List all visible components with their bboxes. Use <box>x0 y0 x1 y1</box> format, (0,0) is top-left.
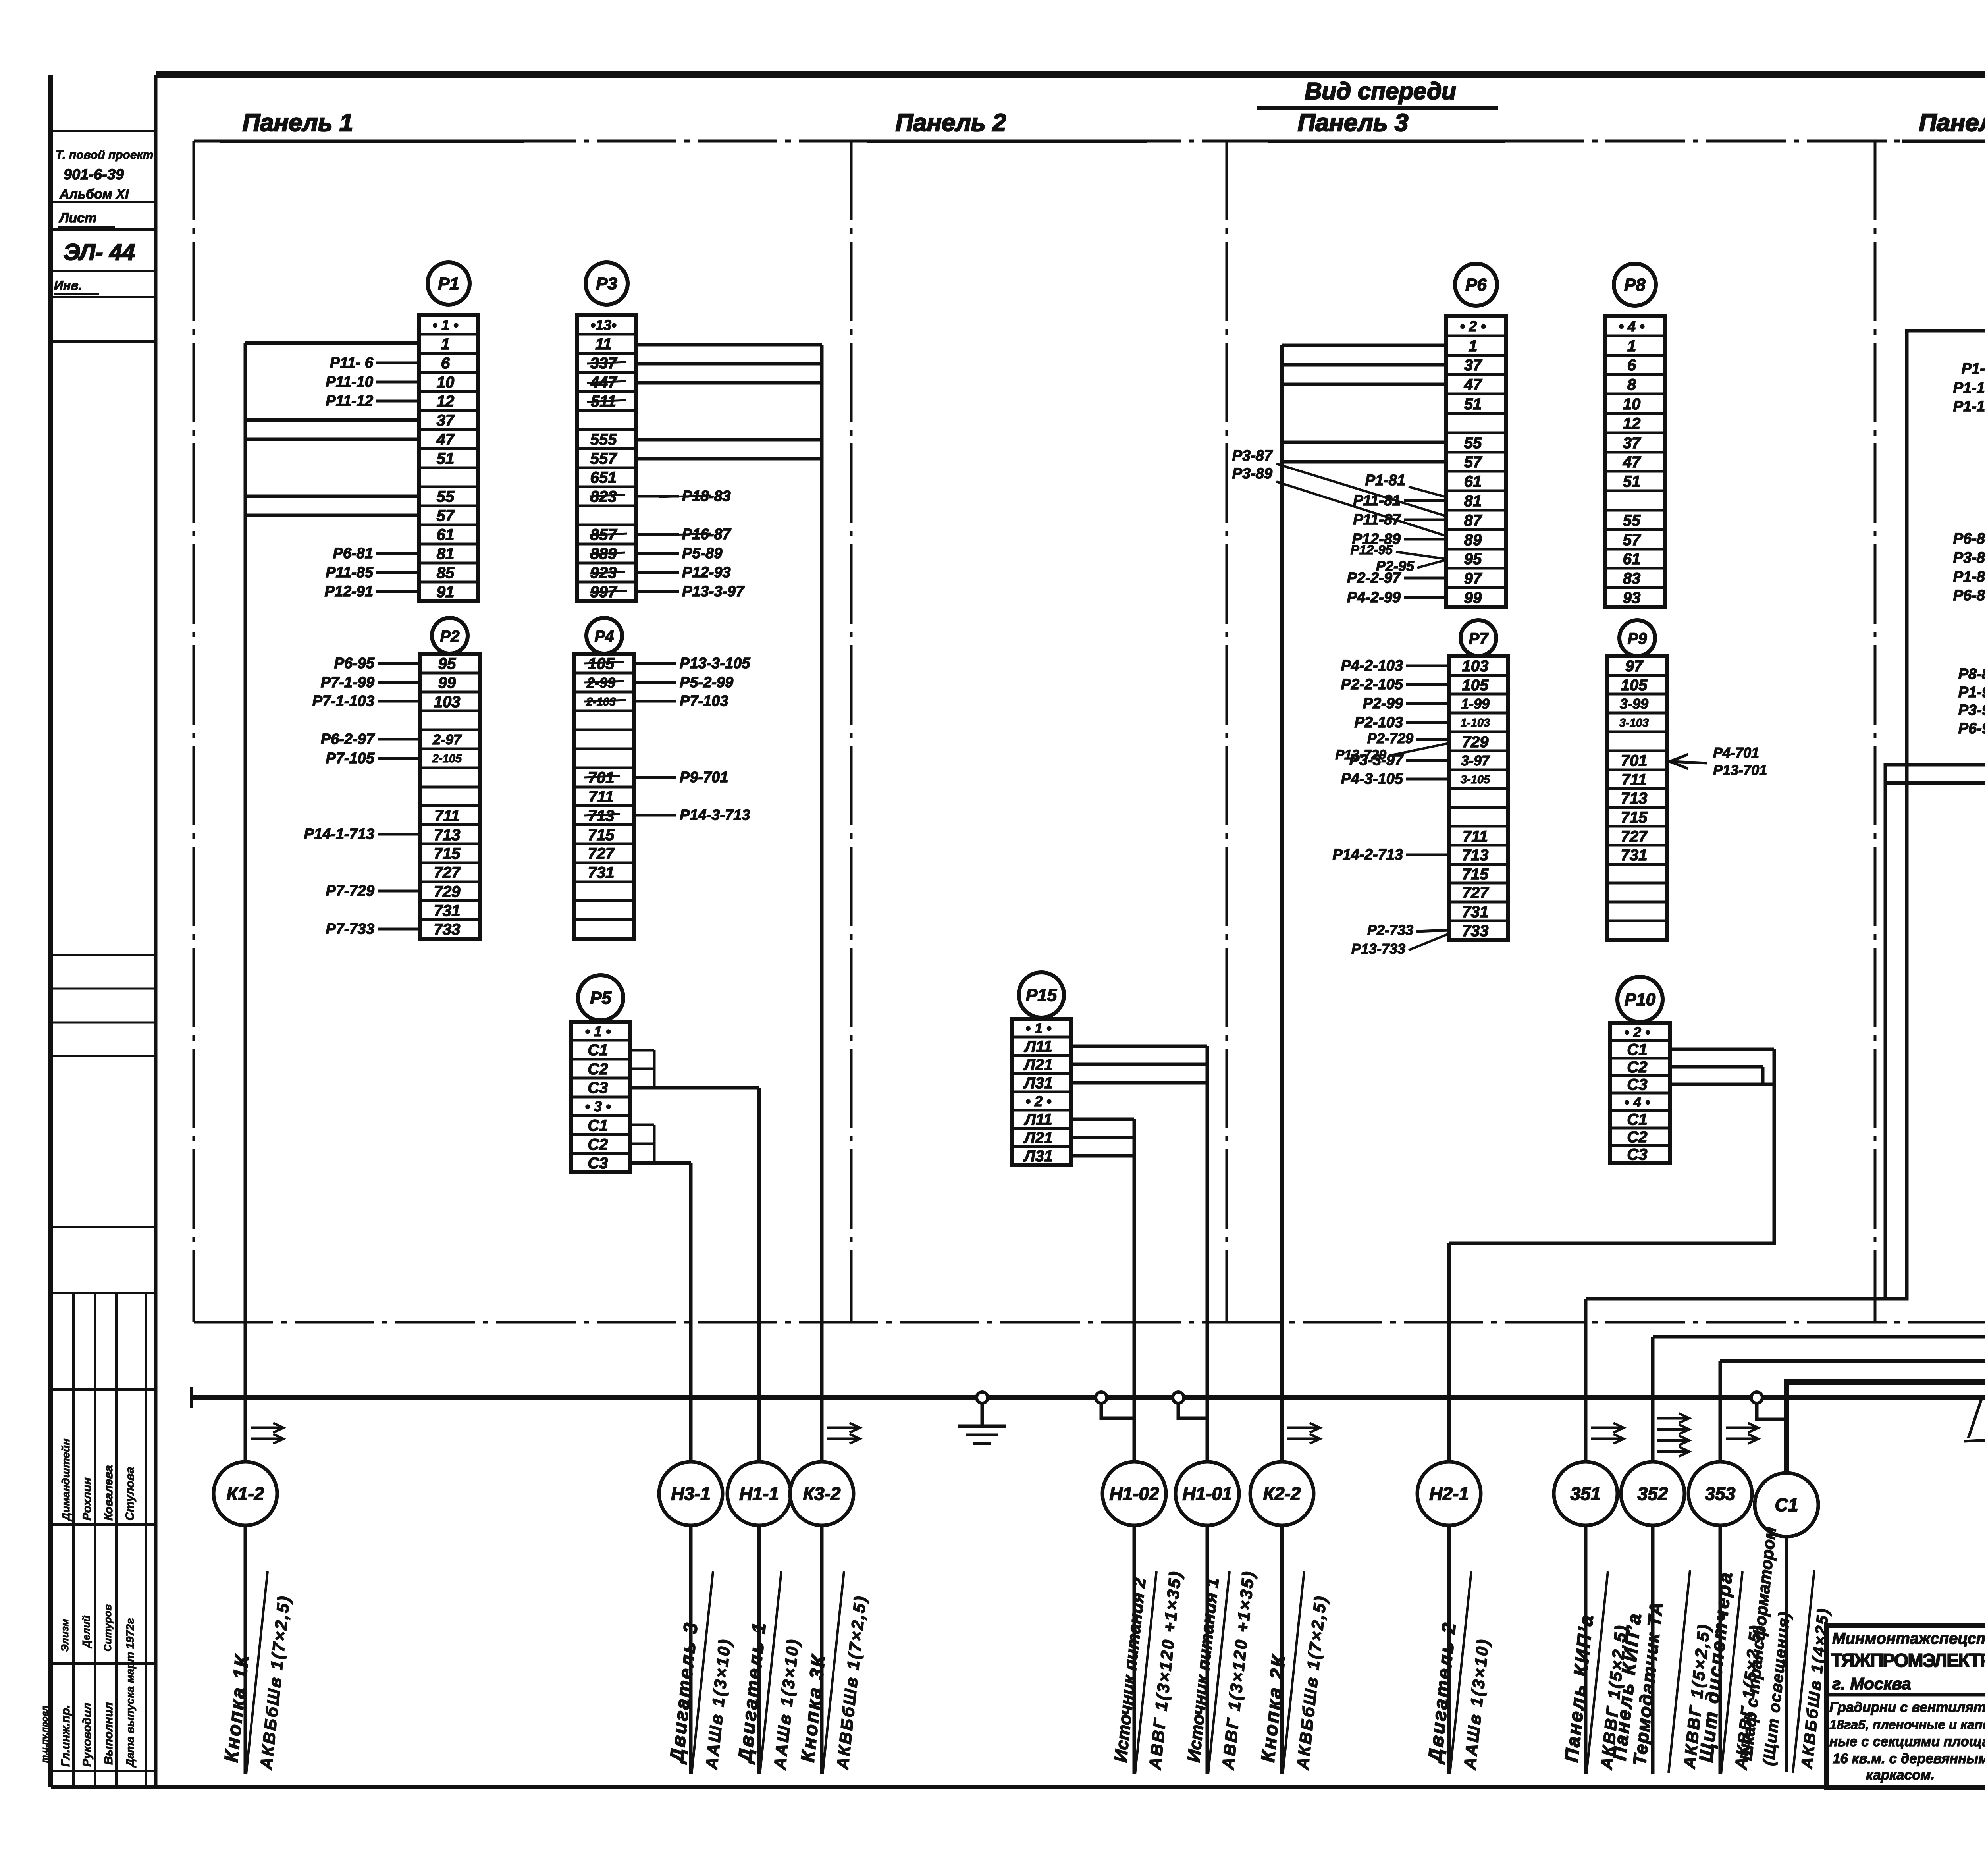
svg-text:353: 353 <box>1705 1483 1736 1504</box>
svg-text:Ковалева: Ковалева <box>102 1465 115 1521</box>
svg-text:16 кв.м. с деревянным: 16 кв.м. с деревянным <box>1833 1751 1985 1766</box>
svg-text:Панель 2: Панель 2 <box>896 109 1006 137</box>
svg-text:61: 61 <box>1464 473 1482 490</box>
svg-text:10: 10 <box>437 374 455 391</box>
svg-text:1-103: 1-103 <box>1461 717 1490 729</box>
svg-text:С2: С2 <box>1627 1059 1647 1076</box>
svg-text:С1: С1 <box>1627 1041 1647 1059</box>
svg-text:1: 1 <box>441 335 450 353</box>
svg-text:Р11-10: Р11-10 <box>326 374 373 390</box>
svg-text:Р7-105: Р7-105 <box>326 750 374 767</box>
svg-text:Р7: Р7 <box>1469 630 1489 648</box>
svg-text:93: 93 <box>1623 589 1641 607</box>
svg-text:Л31: Л31 <box>1023 1074 1053 1092</box>
svg-text:Р14-3-713: Р14-3-713 <box>680 807 750 823</box>
svg-text:Р2: Р2 <box>440 628 460 645</box>
svg-text:105: 105 <box>1621 677 1648 694</box>
svg-text:10: 10 <box>1623 395 1641 413</box>
svg-text:Р13-3-97: Р13-3-97 <box>682 583 745 600</box>
svg-text:55: 55 <box>437 488 455 505</box>
svg-text:103: 103 <box>1462 657 1489 675</box>
svg-text:Р12-95: Р12-95 <box>1351 542 1393 557</box>
svg-text:51: 51 <box>437 450 455 467</box>
svg-text:Альбом XI: Альбом XI <box>59 187 129 202</box>
svg-text:Р11-85: Р11-85 <box>326 564 374 581</box>
svg-text:Р1-12: Р1-12 <box>1953 398 1985 415</box>
svg-text:2-97: 2-97 <box>432 731 462 748</box>
svg-text:Р3: Р3 <box>596 274 617 293</box>
svg-text:С1: С1 <box>1775 1494 1798 1515</box>
svg-text:Р5: Р5 <box>590 988 611 1008</box>
svg-text:г. Москва: г. Москва <box>1832 1674 1911 1693</box>
svg-text:711: 711 <box>588 788 614 806</box>
svg-text:С2: С2 <box>588 1060 608 1078</box>
svg-text:Панель 1: Панель 1 <box>243 109 353 137</box>
svg-text:12: 12 <box>437 393 455 410</box>
svg-text:С2: С2 <box>588 1136 608 1153</box>
svg-text:901-6-39: 901-6-39 <box>64 166 124 183</box>
svg-text:Р6: Р6 <box>1465 275 1487 295</box>
svg-text:85: 85 <box>437 564 455 582</box>
svg-text:729: 729 <box>1462 733 1489 751</box>
svg-text:731: 731 <box>588 864 615 881</box>
svg-text:Р7-1-103: Р7-1-103 <box>312 693 374 710</box>
svg-text:2-105: 2-105 <box>432 752 462 765</box>
svg-text:713: 713 <box>434 826 461 844</box>
svg-text:каркасом.: каркасом. <box>1866 1767 1935 1783</box>
svg-text:715: 715 <box>1621 809 1648 826</box>
svg-text:729: 729 <box>434 883 461 900</box>
svg-text:Р7-103: Р7-103 <box>680 693 728 710</box>
svg-text:47: 47 <box>1464 376 1482 393</box>
svg-text:ЭЛ- 44: ЭЛ- 44 <box>64 239 135 265</box>
svg-text:57: 57 <box>437 507 455 524</box>
svg-text:Р13-701: Р13-701 <box>1713 762 1767 778</box>
svg-text:1: 1 <box>1627 337 1636 355</box>
svg-text:Р8-89: Р8-89 <box>1958 666 1985 683</box>
svg-text:Р7-733: Р7-733 <box>326 921 374 937</box>
svg-text:• 1 •: • 1 • <box>1025 1020 1051 1036</box>
svg-text:6: 6 <box>441 355 450 372</box>
svg-text:6: 6 <box>1627 357 1636 374</box>
svg-text:Р3-93: Р3-93 <box>1958 702 1985 719</box>
svg-text:Р1-6: Р1-6 <box>1962 361 1985 377</box>
svg-text:Минмонтажспецстрой СССР.: Минмонтажспецстрой СССР. <box>1832 1630 1985 1647</box>
svg-text:37: 37 <box>437 412 455 429</box>
svg-text:99: 99 <box>438 674 456 692</box>
svg-text:3-99: 3-99 <box>1620 696 1648 712</box>
svg-text:55: 55 <box>1464 434 1482 452</box>
svg-text:Р4: Р4 <box>595 628 614 645</box>
svg-text:1: 1 <box>1469 337 1477 355</box>
svg-text:Р14-2-713: Р14-2-713 <box>1333 846 1403 863</box>
svg-text:Р1: Р1 <box>438 274 459 293</box>
svg-text:Р3-83: Р3-83 <box>1953 549 1985 566</box>
svg-text:Р1-10: Р1-10 <box>1953 380 1985 396</box>
svg-text:727: 727 <box>588 845 615 862</box>
svg-text:Панель 4: Панель 4 <box>1919 109 1985 137</box>
svg-text:Дата выпуска март 1972г: Дата выпуска март 1972г <box>124 1618 136 1768</box>
svg-text:Инв.: Инв. <box>54 278 82 293</box>
svg-text:• 2 •: • 2 • <box>1025 1093 1051 1109</box>
svg-text:715: 715 <box>588 826 615 844</box>
svg-text:Н2-1: Н2-1 <box>1429 1483 1469 1504</box>
svg-text:727: 727 <box>1621 828 1648 845</box>
svg-text:51: 51 <box>1464 395 1482 413</box>
svg-text:18га5, пленочные и капель-: 18га5, пленочные и капель- <box>1829 1717 1985 1732</box>
svg-text:Р6-87: Р6-87 <box>1953 587 1985 604</box>
svg-text:711: 711 <box>1463 828 1488 845</box>
svg-text:555: 555 <box>590 431 617 448</box>
svg-text:97: 97 <box>1625 657 1644 675</box>
svg-text:57: 57 <box>1623 531 1641 549</box>
svg-text:103: 103 <box>434 693 461 711</box>
svg-text:61: 61 <box>1623 550 1641 568</box>
svg-text:731: 731 <box>434 902 461 920</box>
svg-text:Р9: Р9 <box>1628 630 1648 648</box>
svg-text:Р6-95: Р6-95 <box>334 655 375 672</box>
svg-text:Р2-2-105: Р2-2-105 <box>1341 676 1403 693</box>
svg-text:81: 81 <box>437 545 455 563</box>
svg-text:Р6-81: Р6-81 <box>333 545 373 562</box>
svg-text:87: 87 <box>1464 512 1482 529</box>
svg-text:1-99: 1-99 <box>1461 696 1490 712</box>
svg-text:ТЯЖПРОМЭЛЕКТРОПРОЕКТ: ТЯЖПРОМЭЛЕКТРОПРОЕКТ <box>1831 1650 1985 1671</box>
svg-text:3-105: 3-105 <box>1461 773 1490 786</box>
svg-text:К1-2: К1-2 <box>227 1483 264 1504</box>
svg-text:Р2-729: Р2-729 <box>1367 730 1413 746</box>
svg-text:713: 713 <box>1621 790 1648 807</box>
svg-text:83: 83 <box>1623 570 1641 587</box>
svg-text:Р6-81: Р6-81 <box>1953 530 1985 547</box>
svg-text:Р1-91: Р1-91 <box>1958 684 1985 701</box>
svg-text:С1: С1 <box>588 1041 608 1059</box>
svg-text:711: 711 <box>434 807 460 825</box>
svg-text:Р7-729: Р7-729 <box>326 883 374 899</box>
svg-text:57: 57 <box>1464 453 1482 471</box>
svg-text:Р8: Р8 <box>1624 275 1646 295</box>
svg-text:715: 715 <box>434 845 461 862</box>
svg-text:• 2 •: • 2 • <box>1624 1024 1650 1040</box>
svg-text:Р5-89: Р5-89 <box>682 545 722 562</box>
svg-text:•13•: •13• <box>590 317 616 333</box>
svg-text:Л21: Л21 <box>1023 1056 1053 1074</box>
svg-text:91: 91 <box>437 583 455 601</box>
svg-text:Р4-2-103: Р4-2-103 <box>1341 657 1403 674</box>
svg-text:713: 713 <box>1462 846 1489 864</box>
svg-text:8: 8 <box>1627 376 1636 393</box>
svg-text:Р1-81: Р1-81 <box>1365 472 1405 489</box>
svg-text:Р3-89: Р3-89 <box>1232 465 1272 482</box>
svg-text:711: 711 <box>1621 771 1647 789</box>
svg-text:Выполнил: Выполнил <box>102 1702 115 1765</box>
svg-text:Н3-1: Н3-1 <box>671 1483 711 1504</box>
svg-text:Р3-3-97: Р3-3-97 <box>1349 752 1404 769</box>
svg-text:Р3-87: Р3-87 <box>1232 447 1273 464</box>
svg-text:С1: С1 <box>1627 1111 1647 1128</box>
svg-text:Гл.инж.пр.: Гл.инж.пр. <box>59 1705 72 1767</box>
svg-text:55: 55 <box>1623 512 1641 529</box>
svg-text:Р5-2-99: Р5-2-99 <box>680 674 733 691</box>
svg-text:351: 351 <box>1571 1483 1601 1504</box>
svg-text:61: 61 <box>437 526 455 544</box>
svg-text:Р1-85: Р1-85 <box>1953 569 1985 585</box>
svg-text:3-97: 3-97 <box>1461 752 1490 769</box>
svg-text:Р11-12: Р11-12 <box>326 393 373 409</box>
svg-text:С3: С3 <box>1627 1076 1647 1093</box>
svg-text:557: 557 <box>590 450 617 467</box>
svg-text:95: 95 <box>438 655 456 673</box>
svg-text:701: 701 <box>1621 752 1648 769</box>
svg-text:81: 81 <box>1464 492 1482 510</box>
svg-text:ные с секциями площадью: ные с секциями площадью <box>1829 1734 1985 1749</box>
svg-text:Р10: Р10 <box>1625 990 1656 1009</box>
svg-text:105: 105 <box>1462 677 1489 694</box>
svg-text:Р12-91: Р12-91 <box>324 583 373 600</box>
svg-text:Лист: Лист <box>58 210 96 226</box>
svg-text:• 3 •: • 3 • <box>585 1098 611 1114</box>
svg-text:С2: С2 <box>1627 1128 1647 1146</box>
svg-text:Элизм: Элизм <box>59 1619 71 1652</box>
svg-text:Ситуров: Ситуров <box>102 1604 114 1652</box>
svg-text:Т. повой проект: Т. повой проект <box>56 148 153 162</box>
svg-text:С3: С3 <box>1627 1146 1647 1163</box>
svg-text:Рохлин: Рохлин <box>81 1477 94 1521</box>
svg-text:• 4 •: • 4 • <box>1624 1094 1650 1110</box>
svg-text:Н1-1: Н1-1 <box>739 1483 779 1504</box>
svg-text:К2-2: К2-2 <box>1263 1483 1301 1504</box>
svg-text:99: 99 <box>1464 589 1482 607</box>
svg-text:Р2-103: Р2-103 <box>1354 714 1403 731</box>
svg-text:С3: С3 <box>588 1079 608 1097</box>
svg-text:37: 37 <box>1464 357 1482 374</box>
svg-text:Л11: Л11 <box>1023 1038 1052 1055</box>
svg-text:Р2-733: Р2-733 <box>1367 922 1413 938</box>
svg-text:т.ц.пу.провл: т.ц.пу.провл <box>40 1706 50 1763</box>
svg-text:Р15: Р15 <box>1026 985 1057 1005</box>
svg-text:Р2-2-97: Р2-2-97 <box>1347 570 1401 586</box>
svg-text:Р16-87: Р16-87 <box>682 526 731 543</box>
svg-text:47: 47 <box>436 431 455 448</box>
svg-text:51: 51 <box>1623 473 1641 490</box>
svg-text:97: 97 <box>1464 570 1482 587</box>
svg-text:Панель 3: Панель 3 <box>1298 109 1409 137</box>
svg-text:Градирни с вентиляторами: Градирни с вентиляторами <box>1829 1700 1985 1715</box>
svg-text:47: 47 <box>1623 453 1641 471</box>
svg-text:12: 12 <box>1623 415 1641 432</box>
svg-text:С1: С1 <box>588 1117 608 1134</box>
svg-text:Н1-01: Н1-01 <box>1182 1483 1232 1504</box>
svg-text:С3: С3 <box>588 1155 608 1172</box>
svg-text:715: 715 <box>1462 866 1489 883</box>
svg-text:731: 731 <box>1462 903 1489 921</box>
svg-text:• 1 •: • 1 • <box>585 1023 611 1039</box>
svg-text:733: 733 <box>434 921 461 938</box>
svg-text:352: 352 <box>1638 1483 1668 1504</box>
svg-text:731: 731 <box>1621 846 1648 864</box>
svg-text:Р13-733: Р13-733 <box>1351 941 1405 957</box>
svg-text:Л11: Л11 <box>1023 1111 1052 1128</box>
svg-text:727: 727 <box>434 864 461 881</box>
svg-text:651: 651 <box>590 469 617 486</box>
svg-text:Р18-83: Р18-83 <box>682 488 731 505</box>
svg-text:3-103: 3-103 <box>1619 717 1649 729</box>
svg-text:11: 11 <box>595 335 612 353</box>
svg-text:Руководил: Руководил <box>81 1702 94 1767</box>
svg-text:Делий: Делий <box>80 1615 92 1648</box>
svg-text:Л31: Л31 <box>1023 1147 1053 1165</box>
svg-text:Вид спереди: Вид спереди <box>1305 78 1456 104</box>
svg-text:Л21: Л21 <box>1023 1129 1053 1147</box>
svg-text:Стулова: Стулова <box>123 1467 137 1521</box>
svg-text:Р6-2-97: Р6-2-97 <box>321 731 375 748</box>
svg-text:Р14-1-713: Р14-1-713 <box>304 826 374 843</box>
svg-text:Р9-701: Р9-701 <box>680 769 728 786</box>
svg-text:89: 89 <box>1464 531 1482 549</box>
svg-text:Р12-93: Р12-93 <box>682 564 731 581</box>
svg-text:Р4-2-99: Р4-2-99 <box>1347 589 1401 606</box>
svg-text:Р13-3-105: Р13-3-105 <box>680 655 750 672</box>
svg-text:• 1 •: • 1 • <box>432 317 458 333</box>
svg-text:• 2 •: • 2 • <box>1460 318 1486 334</box>
svg-text:К3-2: К3-2 <box>803 1483 841 1504</box>
svg-text:Н1-02: Н1-02 <box>1109 1483 1159 1504</box>
svg-text:Р4-701: Р4-701 <box>1713 744 1759 761</box>
svg-text:Р11- 6: Р11- 6 <box>330 355 374 371</box>
svg-text:727: 727 <box>1462 884 1489 902</box>
svg-text:Р7-1-99: Р7-1-99 <box>321 674 374 691</box>
svg-text:Р6-95: Р6-95 <box>1958 720 1985 737</box>
svg-text:Р4-3-105: Р4-3-105 <box>1341 771 1403 787</box>
svg-text:37: 37 <box>1623 434 1641 452</box>
svg-text:95: 95 <box>1464 550 1482 568</box>
svg-text:Р2-99: Р2-99 <box>1363 695 1403 712</box>
svg-text:733: 733 <box>1462 922 1489 940</box>
svg-text:• 4 •: • 4 • <box>1619 318 1644 334</box>
svg-text:Димандштейн: Димандштейн <box>60 1438 72 1521</box>
